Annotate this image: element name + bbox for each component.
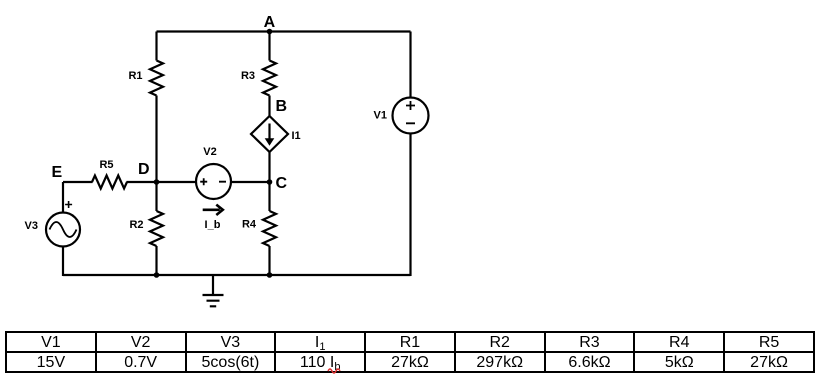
svg-text:R5: R5	[99, 159, 113, 171]
svg-text:B: B	[276, 98, 288, 115]
svg-text:V2: V2	[203, 146, 216, 158]
svg-text:C: C	[276, 175, 288, 192]
svg-text:I1: I1	[292, 130, 301, 142]
svg-text:E: E	[51, 164, 62, 181]
svg-text:I_b: I_b	[205, 219, 221, 231]
svg-text:D: D	[138, 161, 150, 178]
svg-text:A: A	[264, 14, 276, 31]
svg-text:R3: R3	[241, 70, 255, 82]
svg-text:V1: V1	[374, 110, 387, 122]
svg-text:V3: V3	[25, 220, 38, 232]
svg-text:R1: R1	[128, 70, 142, 82]
svg-text:R2: R2	[129, 219, 143, 231]
svg-text:R4: R4	[242, 219, 257, 231]
